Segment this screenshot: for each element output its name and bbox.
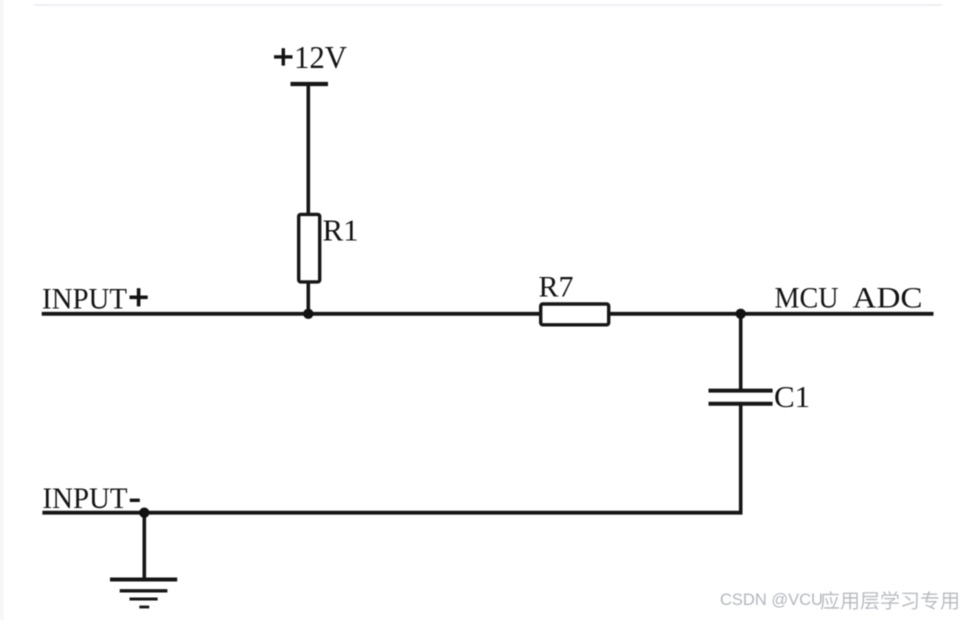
ground bar 2 bbox=[120, 589, 168, 592]
capacitor C1 top plate bbox=[709, 389, 773, 393]
ground bar 1 bbox=[110, 578, 177, 582]
ground bar 4 bbox=[139, 606, 149, 609]
plus of +12V bbox=[274, 55, 293, 58]
resistor R1 bbox=[299, 214, 320, 282]
plus of INPUT+ bbox=[130, 296, 148, 300]
svg-text:INPUT: INPUT bbox=[43, 482, 128, 515]
wire power to R1 bbox=[306, 84, 310, 216]
wire INPUT+ left segment bbox=[42, 312, 542, 316]
svg-text:ADC: ADC bbox=[853, 282, 923, 315]
resistor R7 bbox=[541, 304, 609, 325]
capacitor C1 bottom plate bbox=[709, 402, 773, 406]
ground bar 3 bbox=[130, 598, 158, 601]
wire node to ground bbox=[143, 513, 147, 581]
junction node at R1/INPUT+ bbox=[303, 309, 313, 319]
svg-text:R1: R1 bbox=[323, 213, 359, 248]
junction node at INPUT-/ground bbox=[139, 508, 149, 518]
power +12V bar bbox=[291, 82, 329, 86]
watermark CJK glyph paths bbox=[821, 591, 958, 610]
wire INPUT- bottom segment bbox=[42, 511, 742, 515]
svg-text:MCU: MCU bbox=[775, 282, 839, 315]
svg-text:INPUT: INPUT bbox=[42, 283, 127, 316]
svg-text:C1: C1 bbox=[774, 379, 810, 414]
hyphen of INPUT- bbox=[130, 499, 140, 502]
wire node to C1 top bbox=[739, 314, 743, 392]
svg-text:CSDN @VCU: CSDN @VCU bbox=[720, 591, 823, 609]
wire C1 bottom down bbox=[739, 404, 743, 515]
wire R7 to MCU_ADC bbox=[608, 312, 934, 316]
svg-text:12V: 12V bbox=[294, 39, 347, 75]
junction node at MCU_ADC/C1 bbox=[736, 309, 746, 319]
wire R1 to node bbox=[306, 282, 310, 316]
svg-text:R7: R7 bbox=[539, 271, 574, 304]
